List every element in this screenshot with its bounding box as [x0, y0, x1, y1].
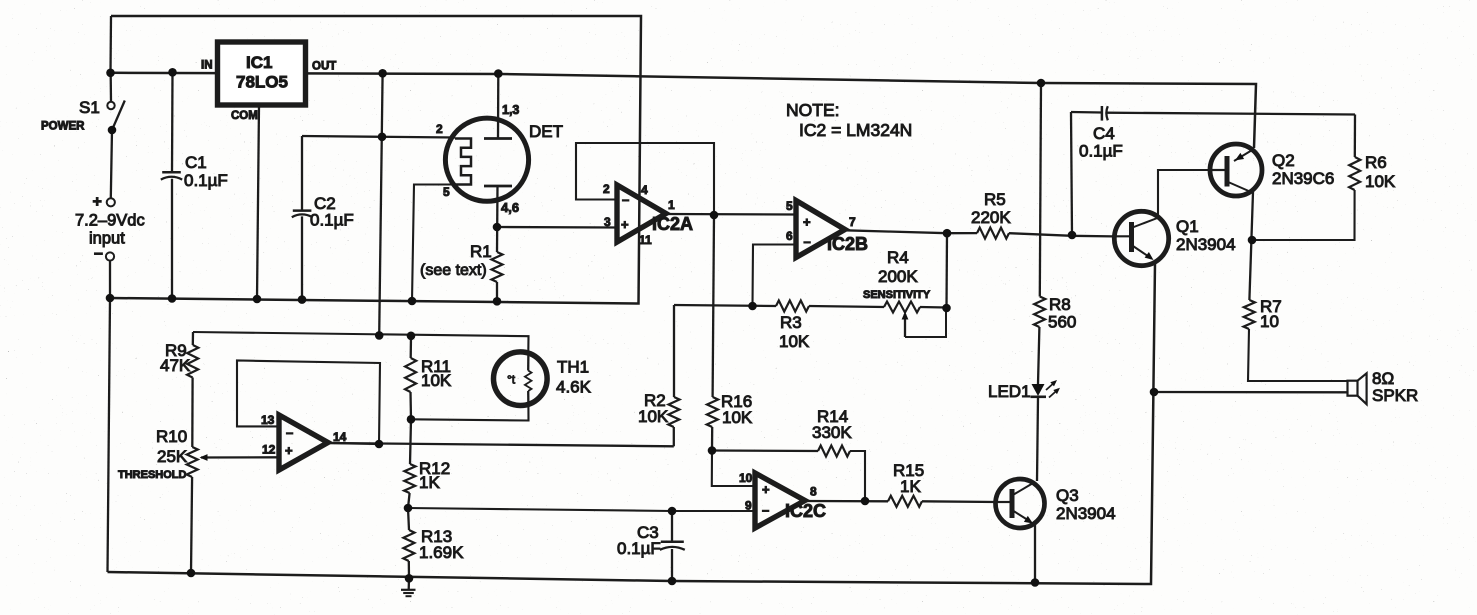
svg-text:9: 9 — [745, 499, 752, 513]
svg-text:10K: 10K — [1365, 172, 1396, 191]
svg-text:7: 7 — [849, 215, 856, 229]
svg-text:SENSITIVITY: SENSITIVITY — [863, 289, 931, 301]
svg-text:+: + — [93, 194, 102, 211]
svg-text:1K: 1K — [419, 473, 440, 492]
svg-text:IC2C: IC2C — [785, 501, 826, 521]
svg-text:78LO5: 78LO5 — [236, 73, 288, 92]
svg-text:+: + — [803, 215, 811, 230]
svg-text:0.1µF: 0.1µF — [617, 539, 661, 558]
svg-text:13: 13 — [261, 413, 275, 427]
svg-text:(see text): (see text) — [420, 262, 487, 279]
svg-text:IC2B: IC2B — [827, 234, 868, 254]
svg-text:10K: 10K — [722, 408, 753, 427]
svg-text:4,6: 4,6 — [501, 200, 519, 215]
svg-text:R5: R5 — [984, 190, 1006, 209]
svg-text:LED1: LED1 — [988, 382, 1031, 401]
svg-text:10: 10 — [739, 471, 753, 485]
svg-text:–: – — [804, 234, 811, 249]
svg-text:IC1: IC1 — [246, 53, 272, 72]
svg-text:IC2A: IC2A — [652, 214, 693, 234]
svg-text:Q1: Q1 — [1176, 217, 1199, 236]
svg-text:C4: C4 — [1093, 124, 1115, 143]
svg-text:DET: DET — [529, 122, 563, 141]
svg-text:10K: 10K — [421, 371, 452, 390]
svg-text:2: 2 — [436, 122, 443, 136]
svg-text:5: 5 — [443, 185, 450, 199]
svg-text:7.2–9Vdc: 7.2–9Vdc — [75, 212, 145, 230]
svg-text:–: – — [286, 425, 293, 440]
svg-text:Q3: Q3 — [1056, 486, 1079, 505]
svg-text:330K: 330K — [812, 423, 852, 442]
svg-text:POWER: POWER — [41, 121, 85, 133]
svg-text:1.69K: 1.69K — [419, 543, 464, 562]
svg-text:8: 8 — [810, 485, 817, 499]
svg-text:R4: R4 — [887, 248, 909, 267]
svg-text:10K: 10K — [779, 332, 810, 351]
svg-text:10K: 10K — [638, 407, 669, 426]
svg-text:10: 10 — [1260, 312, 1279, 331]
svg-text:12: 12 — [262, 443, 276, 457]
svg-text:47K: 47K — [160, 356, 191, 375]
svg-text:0.1µF: 0.1µF — [1079, 142, 1123, 161]
svg-text:COM: COM — [231, 110, 258, 122]
svg-text:1K: 1K — [900, 477, 921, 496]
svg-text:0.1µF: 0.1µF — [184, 171, 228, 190]
svg-text:THRESHOLD: THRESHOLD — [118, 469, 187, 481]
svg-text:4.6K: 4.6K — [556, 378, 592, 397]
svg-text:6: 6 — [786, 229, 793, 243]
svg-text:–: – — [94, 245, 103, 262]
svg-text:+: + — [762, 482, 770, 497]
svg-text:TH1: TH1 — [557, 358, 589, 377]
svg-text:C1: C1 — [185, 153, 207, 172]
svg-text:IC2 = LM324N: IC2 = LM324N — [799, 120, 912, 140]
svg-text:Q2: Q2 — [1272, 151, 1295, 170]
svg-text:R1: R1 — [470, 242, 492, 261]
svg-text:200K: 200K — [878, 267, 918, 286]
svg-text:14: 14 — [333, 430, 347, 444]
svg-text:R10: R10 — [156, 427, 187, 446]
svg-text:2N3904: 2N3904 — [1176, 235, 1236, 254]
svg-text:R8: R8 — [1049, 295, 1071, 314]
svg-text:1: 1 — [668, 198, 675, 212]
svg-text:–: – — [762, 503, 769, 518]
svg-text:4: 4 — [641, 183, 648, 197]
svg-text:R3: R3 — [780, 313, 802, 332]
svg-text:–: – — [622, 192, 629, 207]
svg-text:SPKR: SPKR — [1372, 386, 1418, 405]
svg-text:0.1µF: 0.1µF — [310, 211, 354, 230]
svg-text:°t: °t — [507, 373, 516, 387]
svg-text:NOTE:: NOTE: — [786, 100, 839, 120]
svg-text:R6: R6 — [1365, 153, 1387, 172]
svg-text:IN: IN — [201, 60, 213, 72]
svg-text:+: + — [621, 217, 629, 232]
svg-text:2N3904: 2N3904 — [1056, 504, 1116, 523]
svg-text:S1: S1 — [79, 98, 100, 117]
svg-text:25K: 25K — [157, 447, 188, 466]
svg-text:11: 11 — [639, 233, 652, 247]
svg-text:560: 560 — [1048, 313, 1076, 332]
svg-text:2N39C6: 2N39C6 — [1272, 169, 1334, 188]
svg-text:220K: 220K — [971, 208, 1011, 227]
svg-text:2: 2 — [603, 182, 610, 196]
svg-text:+: + — [285, 443, 293, 458]
svg-text:1,3: 1,3 — [502, 103, 519, 117]
svg-text:OUT: OUT — [312, 61, 336, 73]
svg-text:3: 3 — [604, 215, 611, 229]
svg-text:5: 5 — [786, 199, 793, 213]
